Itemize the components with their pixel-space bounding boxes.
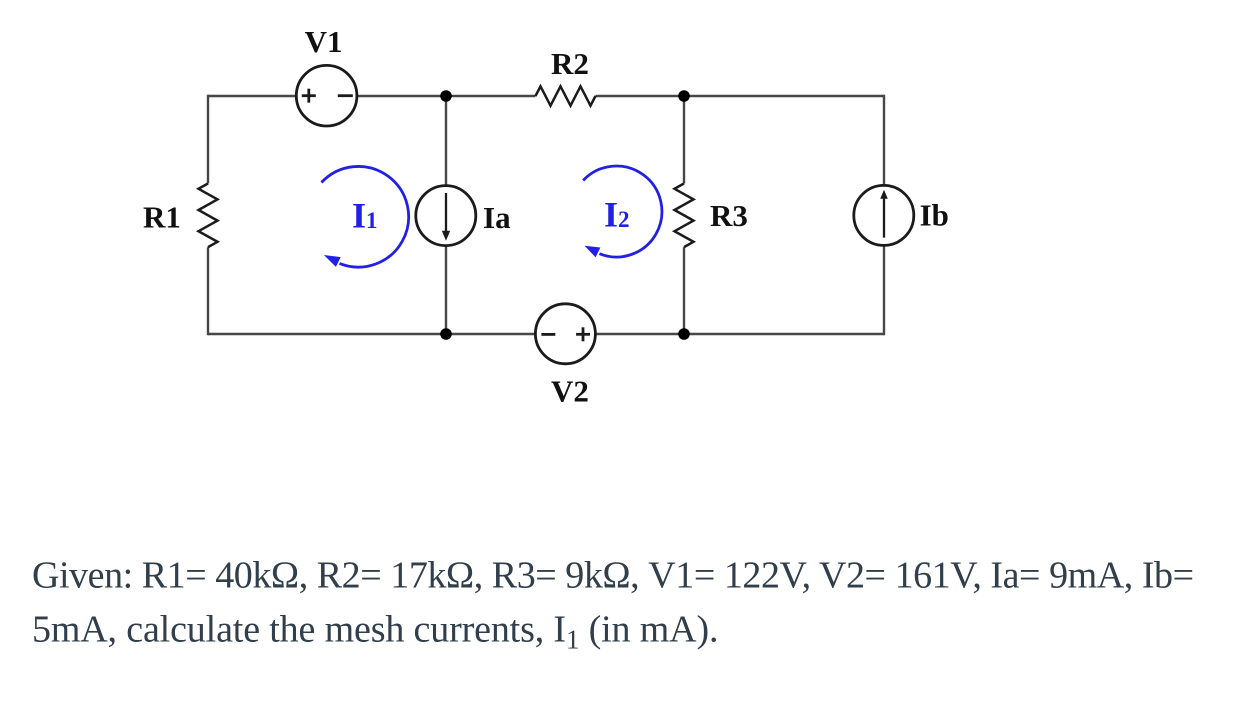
wire bottom-right segment <box>595 333 884 335</box>
node junction top-left (Ia top) <box>440 90 452 102</box>
svg-text:Ib: Ib <box>920 198 949 233</box>
current source Ia <box>416 186 511 246</box>
voltage source V2 <box>535 304 595 409</box>
resistor R2 <box>536 46 596 106</box>
svg-text:R2: R2 <box>551 46 589 81</box>
resistor R1 <box>143 184 217 248</box>
node junction top-right (R3 top) <box>678 90 690 102</box>
node junction bottom-left (Ia bottom) <box>440 328 452 340</box>
problem statement text line 1 <box>32 555 1194 597</box>
svg-text:I2: I2 <box>604 194 630 234</box>
problem statement text line 2 <box>32 609 718 655</box>
wire top-middle segment <box>357 95 536 97</box>
wire left vertical <box>207 95 209 335</box>
svg-text:R1: R1 <box>143 200 181 235</box>
svg-text:V1: V1 <box>305 24 343 59</box>
wire middle vertical (Ia branch) <box>445 96 447 334</box>
current source Ib <box>854 185 949 245</box>
wire R3 vertical <box>683 96 685 334</box>
wire bottom-left segment <box>208 333 536 335</box>
svg-text:V2: V2 <box>551 374 589 409</box>
svg-text:R3: R3 <box>710 198 748 233</box>
wire top R2-right segment <box>596 95 885 97</box>
wire top-left segment <box>208 95 296 97</box>
svg-text:I1: I1 <box>352 196 378 236</box>
svg-text:5mA, calculate the mesh curren: 5mA, calculate the mesh currents, I1 (in… <box>32 609 718 655</box>
svg-text:Ia: Ia <box>483 200 511 235</box>
voltage source V1 <box>296 24 357 126</box>
mesh current I2 arrow loop <box>583 166 662 257</box>
resistor R3 <box>675 184 748 248</box>
svg-text:Given: R1= 40kΩ, R2= 17kΩ, R3=: Given: R1= 40kΩ, R2= 17kΩ, R3= 9kΩ, V1= … <box>32 555 1194 597</box>
mesh current I1 arrow loop <box>322 166 409 267</box>
wire right vertical <box>883 95 885 335</box>
node junction bottom-right (R3 bottom) <box>678 328 690 340</box>
